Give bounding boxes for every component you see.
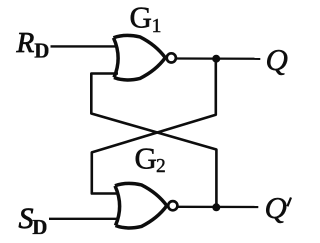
- bubble G1: [167, 53, 176, 62]
- wire Q' output: [178, 206, 258, 208]
- svg-text:D: D: [32, 215, 47, 239]
- label Q': [265, 190, 292, 225]
- svg-text:D: D: [34, 38, 49, 62]
- wire Q output: [177, 57, 261, 60]
- wire RD input: [51, 45, 119, 47]
- wire Q feedback: down, diagonal to left, down, into G2 top input: [92, 59, 216, 194]
- svg-text:G: G: [130, 0, 152, 34]
- wire G1 lower-input feedback: left, down, diagonal to right, down to Q' junction: [91, 74, 216, 208]
- label RD: [16, 27, 50, 63]
- wire SD input: [49, 218, 119, 220]
- node Q' junction: [212, 203, 220, 211]
- svg-text:R: R: [16, 27, 35, 59]
- svg-text:S: S: [19, 202, 34, 235]
- node Q junction: [212, 55, 220, 63]
- svg-text:G: G: [135, 141, 157, 176]
- label SD: [19, 202, 48, 239]
- nor-gate G1: [114, 35, 166, 80]
- svg-text:2: 2: [156, 156, 166, 177]
- label G1: [130, 0, 162, 37]
- bubble G2: [168, 201, 177, 210]
- svg-text:Q: Q: [265, 190, 287, 225]
- label G2: [135, 141, 166, 177]
- nor-gate G2: [115, 183, 167, 228]
- svg-text:Q: Q: [266, 42, 288, 77]
- svg-text:1: 1: [152, 15, 162, 37]
